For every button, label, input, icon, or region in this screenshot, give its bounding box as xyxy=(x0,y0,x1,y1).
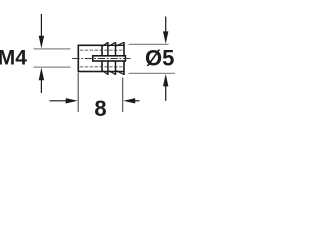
svg-text:Ø5: Ø5 xyxy=(145,45,174,70)
centerline xyxy=(72,58,131,60)
extension line 8 right xyxy=(122,78,124,112)
svg-text:8: 8 xyxy=(94,96,106,121)
extension line M4 top xyxy=(34,48,71,50)
fin 3 xyxy=(116,42,124,75)
thread minor line top xyxy=(80,49,123,51)
root line top across fins xyxy=(102,44,124,46)
arrow diameter bottom xyxy=(163,74,168,101)
extension line diameter bottom xyxy=(129,72,175,74)
fin 1 xyxy=(102,42,108,75)
slot xyxy=(93,56,126,61)
extension line M4 bottom xyxy=(34,66,71,68)
arrow diameter top xyxy=(163,17,168,44)
fin 2 xyxy=(109,42,116,75)
thread minor line bottom xyxy=(80,66,123,68)
arrow M4 bottom xyxy=(39,68,44,93)
arrow 8 right xyxy=(123,98,139,103)
svg-text:M4: M4 xyxy=(0,46,27,69)
root line bottom across fins xyxy=(102,71,124,73)
sleeve body xyxy=(78,45,102,71)
extension line diameter top xyxy=(129,43,169,45)
extension line 8 left xyxy=(77,73,79,112)
arrow 8 left xyxy=(50,98,78,103)
arrow M4 top xyxy=(39,14,44,48)
